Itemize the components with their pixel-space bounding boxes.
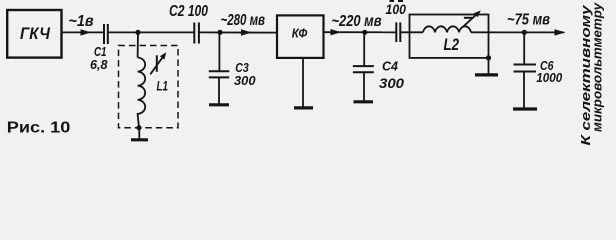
output arrowhead	[555, 29, 566, 35]
svg-text:6,8: 6,8	[90, 57, 108, 72]
svg-text:С2 100: С2 100	[169, 3, 208, 20]
adjustable core bar for L1	[156, 55, 158, 72]
clipped label fragment at top edge	[390, 0, 404, 2]
svg-text:1000: 1000	[536, 70, 563, 85]
wire: КФ output to coupling capacitor	[324, 31, 397, 33]
node B junction dot	[217, 30, 222, 35]
node C junction dot	[362, 30, 367, 35]
capacitor C2	[194, 23, 199, 44]
svg-text:L2: L2	[444, 35, 460, 54]
capacitor C3	[209, 71, 229, 77]
output wire: L2 to selective microvoltmeter	[471, 31, 564, 33]
svg-text:~280 мв: ~280 мв	[221, 12, 266, 29]
svg-text:КФ: КФ	[292, 25, 308, 40]
wire: node D down to C6	[523, 32, 525, 64]
shield box around L1 (dashed)	[119, 46, 179, 128]
svg-text:ГКЧ: ГКЧ	[20, 24, 51, 43]
ground under КФ	[294, 106, 313, 109]
wire: shield corner to ground	[488, 58, 490, 74]
svg-text:L1: L1	[157, 77, 169, 93]
signal flow arrow before КФ	[241, 29, 252, 35]
signal flow arrow on ГКЧ output wire	[81, 29, 92, 35]
inductor L1	[138, 58, 146, 128]
capacitor C1	[104, 24, 108, 44]
capacitor C4	[353, 66, 374, 72]
svg-text:Рис. 10: Рис. 10	[7, 120, 71, 137]
signal flow arrow after КФ	[331, 29, 342, 35]
svg-text:100: 100	[386, 2, 407, 17]
adjustable core bar for L2	[464, 17, 472, 19]
svg-text:300: 300	[234, 73, 256, 88]
ground under C6	[513, 107, 537, 110]
wire: C3 to ground	[218, 77, 220, 104]
adjustment arrow for L2	[463, 11, 481, 28]
svg-text:~1в: ~1в	[69, 13, 94, 30]
wire: КФ bottom to ground	[302, 58, 304, 107]
svg-text:С4: С4	[382, 59, 399, 74]
node D junction dot	[522, 30, 527, 35]
ground under L1	[131, 128, 148, 140]
adjustment arrow for L1	[150, 52, 166, 74]
capacitor C6	[514, 65, 537, 72]
shield box around L2	[410, 15, 489, 58]
wire: C1 to C2	[108, 31, 195, 33]
wire: node A down into shield to L1	[137, 32, 139, 57]
block КФ (quartz filter)	[277, 15, 324, 58]
ground under C4	[354, 100, 374, 103]
wire: node B down to C3	[218, 32, 220, 71]
svg-text:микровольтметру: микровольтметру	[590, 2, 605, 132]
paper background	[0, 0, 616, 151]
inductor L2	[423, 26, 471, 32]
ground under L2 shield	[475, 73, 498, 76]
junction at L1 bottom on shield edge	[136, 125, 141, 130]
svg-text:~220 мв: ~220 мв	[332, 13, 382, 30]
wire: coupling capacitor into L2 shield	[400, 31, 423, 33]
wire: C4 to ground	[363, 72, 365, 101]
capacitor 100 (coupling)	[396, 22, 400, 42]
junction at L2 shield bottom-right corner	[486, 55, 491, 60]
wire: ГКЧ output to C1	[62, 31, 105, 33]
wire: C6 to ground	[523, 72, 525, 109]
node A junction dot	[135, 30, 140, 35]
block ГКЧ (sweep generator)	[7, 10, 61, 58]
ground under C3	[209, 103, 229, 106]
svg-text:~75 мв: ~75 мв	[507, 11, 550, 28]
svg-text:300: 300	[379, 75, 404, 91]
wire: node C down to C4	[363, 32, 365, 66]
wire: C2 to КФ input	[199, 31, 277, 33]
